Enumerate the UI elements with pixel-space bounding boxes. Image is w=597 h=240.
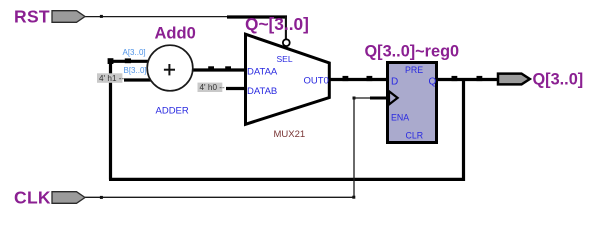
label OUT0 (304, 76, 329, 87)
svg-text:4' h0 --: 4' h0 -- (200, 83, 225, 92)
svg-text:B[3..0]: B[3..0] (124, 66, 147, 75)
junction dot on adder A input (125, 58, 131, 63)
bus: adder B input from constant (124, 78, 153, 81)
label D (391, 77, 398, 88)
wire: CLK thick stub into register clock pin (370, 97, 388, 100)
label ADDER (156, 106, 189, 117)
svg-text:MUX21: MUX21 (274, 129, 306, 140)
wire: RST net horizontal (85, 16, 228, 18)
svg-text:4' h1 --: 4' h1 -- (99, 74, 124, 83)
label B[3..0] (124, 66, 147, 75)
svg-text:Q~[3..0]: Q~[3..0] (245, 14, 309, 34)
corner junction at A input (108, 58, 114, 64)
wire: CLK net vertical riser (353, 98, 355, 197)
label ENA (391, 113, 409, 123)
label Add0 (155, 25, 196, 43)
svg-text:Add0: Add0 (155, 25, 196, 43)
label DATAA (247, 67, 278, 78)
bus: register Q to output pin (437, 78, 497, 81)
junction dot 1 on adder output (208, 66, 214, 71)
register Q[3..0]~reg0 body (388, 63, 437, 143)
label DATAB (247, 86, 277, 97)
label Q[3..0]~reg0 (365, 43, 460, 61)
svg-text:ENA: ENA (391, 113, 409, 123)
svg-text:DATAA: DATAA (247, 67, 278, 78)
bus: adder output to MUX DATAA (192, 68, 249, 71)
svg-text:OUT0: OUT0 (304, 76, 329, 87)
mux SEL inverter bubble (283, 39, 290, 46)
adder U Add0 circle (147, 45, 193, 91)
junction dot 1 on MUX output (343, 76, 349, 81)
svg-text:Q: Q (429, 77, 437, 88)
wire: CLK net horizontal (85, 196, 355, 198)
junction dot 2 on MUX output (367, 76, 373, 81)
svg-text:Q[3..0]~reg0: Q[3..0]~reg0 (365, 43, 460, 61)
junction dot 1 on Q output (452, 76, 458, 81)
corner dot on CLK riser (353, 97, 356, 100)
label CLK (14, 188, 51, 208)
svg-text:ADDER: ADDER (156, 106, 189, 117)
bus: feedback left vertical (109, 60, 112, 180)
svg-text:Q[3..0]: Q[3..0] (533, 71, 584, 89)
register clock triangle (389, 91, 398, 104)
constant 4'h1 (97, 73, 124, 83)
bus: feedback bottom horizontal (109, 178, 465, 181)
label Q[3..0] (533, 71, 584, 89)
label Q (429, 77, 437, 88)
bus: MUX DATAB stub from constant (226, 87, 248, 90)
junction dot 2 on adder output (225, 66, 231, 71)
label PRE (405, 65, 423, 75)
input pin CLK (52, 192, 85, 204)
junction on RST net (100, 15, 103, 18)
constant 4'h0 (198, 83, 225, 93)
label MUX21 (274, 129, 306, 140)
svg-text:PRE: PRE (405, 65, 423, 75)
bus: adder A input (109, 60, 150, 63)
svg-text:A[3..0]: A[3..0] (123, 48, 146, 57)
corner dot on CLK bottom corner (352, 196, 355, 199)
svg-text:CLR: CLR (406, 131, 424, 141)
wire: RST net thick segment (227, 15, 287, 18)
junction on CLK net (100, 196, 103, 199)
node Q~[3..0] label (245, 14, 309, 34)
svg-text:CLK: CLK (14, 188, 51, 208)
bus: feedback right vertical (462, 80, 465, 182)
label RST (14, 7, 50, 27)
label SEL (277, 54, 293, 64)
wire: RST net vertical drop to MUX SEL (285, 17, 287, 40)
svg-text:DATAB: DATAB (247, 86, 277, 97)
input pin RST (52, 11, 85, 23)
junction dot 2 on Q output (477, 76, 483, 81)
svg-text:SEL: SEL (277, 54, 293, 64)
wire: CLK net horizontal to register (354, 97, 372, 99)
svg-text:RST: RST (14, 7, 50, 27)
adder plus symbol (164, 64, 175, 75)
bus: MUX output to register D (330, 78, 388, 81)
label A[3..0] (123, 48, 146, 57)
mux U Q~[3..0] trapezoid MUX21 (246, 34, 330, 124)
svg-text:D: D (391, 77, 398, 88)
output pin Q[3..0] (498, 74, 530, 85)
label CLR (406, 131, 424, 141)
